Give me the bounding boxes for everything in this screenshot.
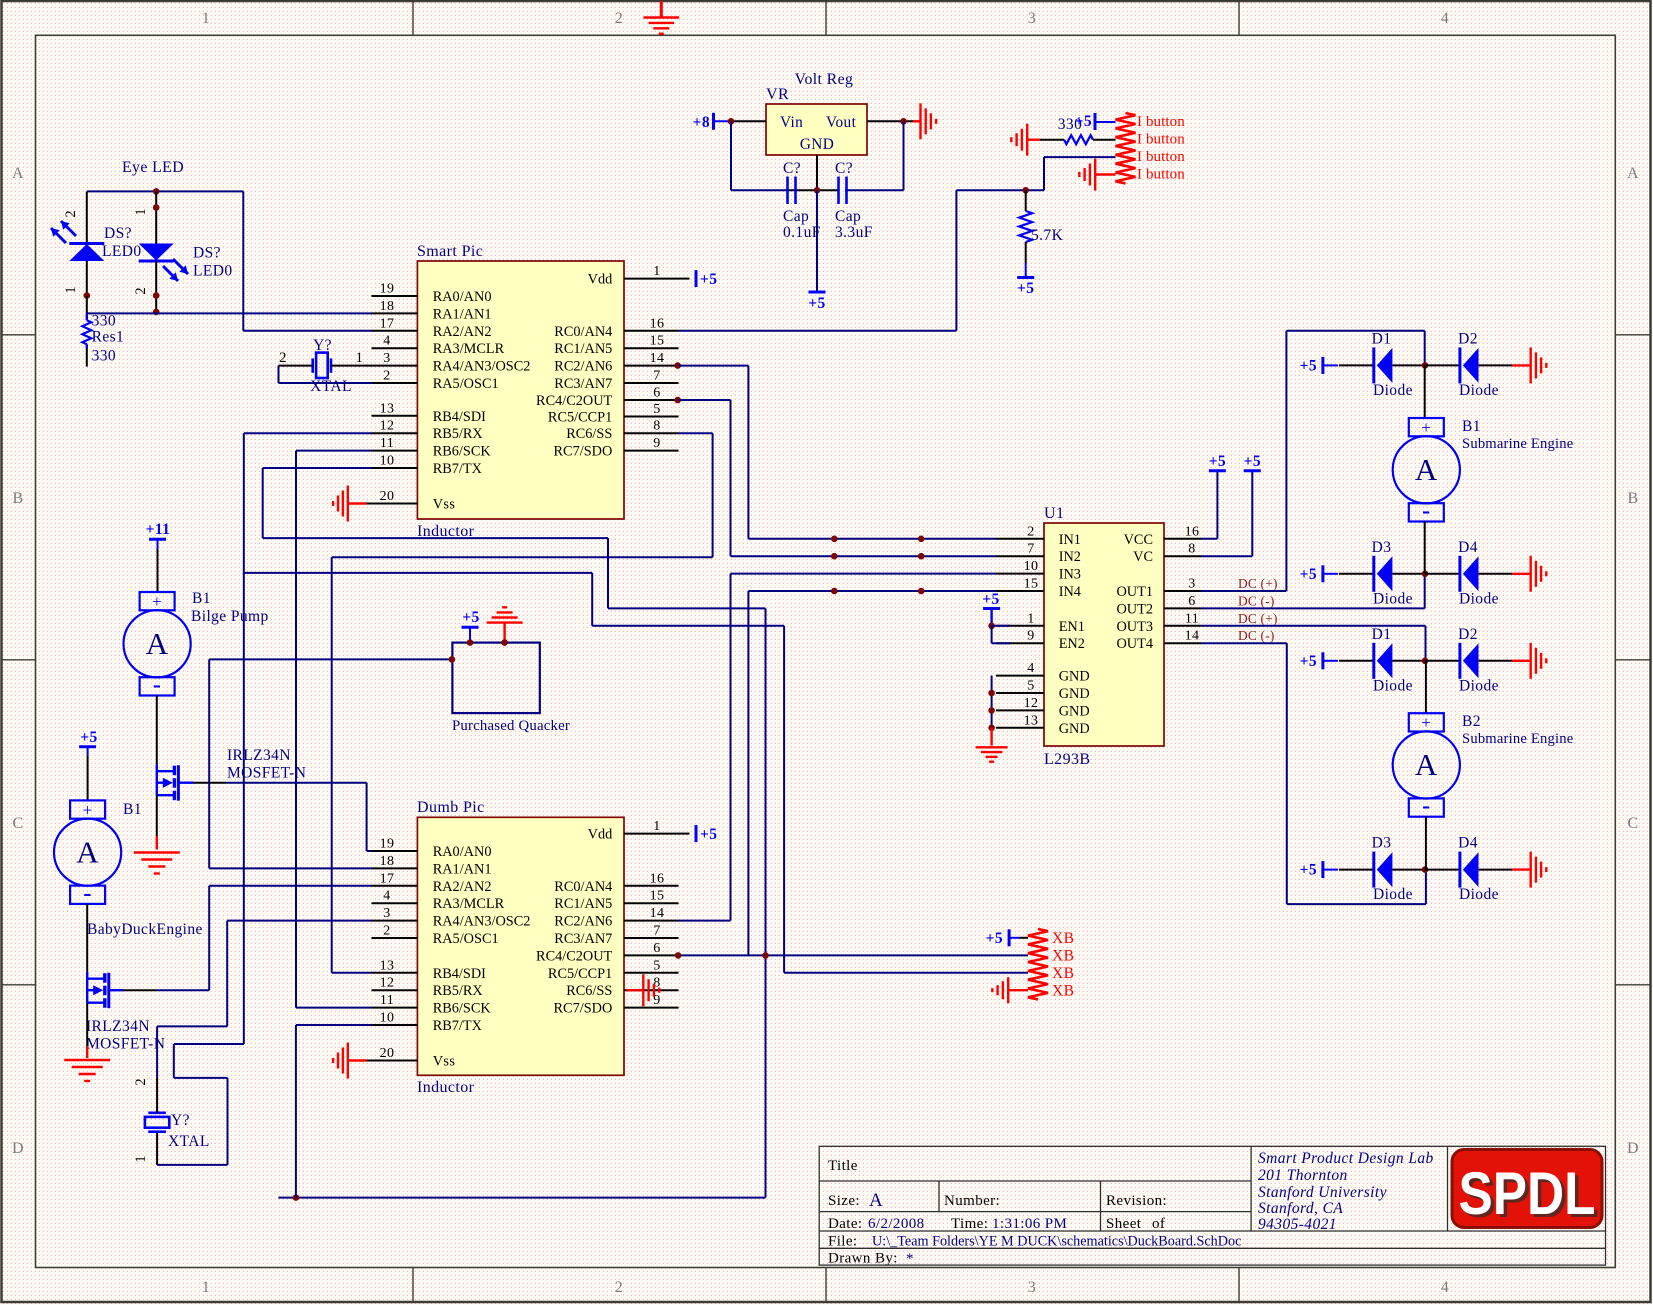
power port +5 (Quacker) bbox=[462, 609, 480, 643]
svg-text:Vout: Vout bbox=[826, 114, 857, 131]
power ground (below button chain) bbox=[1079, 159, 1115, 191]
svg-text:B1: B1 bbox=[1462, 418, 1481, 435]
wire diode D4 to ground bbox=[1479, 573, 1531, 575]
svg-text:4: 4 bbox=[1441, 1279, 1449, 1296]
svg-text:XB: XB bbox=[1052, 948, 1074, 965]
svg-text:of: of bbox=[1152, 1216, 1165, 1232]
wire node to diode D2 bbox=[1425, 660, 1460, 662]
svg-text:6: 6 bbox=[1188, 594, 1195, 609]
svg-text:-: - bbox=[1422, 498, 1430, 524]
svg-text:RA2/AN2: RA2/AN2 bbox=[433, 879, 492, 895]
wire XTAL2 pin1 to RB5 net bbox=[157, 1044, 244, 1165]
node RC4 Smart Pic bbox=[674, 397, 681, 404]
svg-text:A: A bbox=[1415, 747, 1438, 782]
wire RB7 Dumb Pic to bottom rail bbox=[296, 1025, 372, 1198]
svg-text:+: + bbox=[152, 592, 162, 611]
svg-text:D4: D4 bbox=[1458, 539, 1478, 556]
power port +5 (VCC) bbox=[1201, 453, 1226, 539]
wire Quacker to RA1 Dumb Pic bbox=[209, 659, 452, 868]
wire node to diode D4 bbox=[1425, 869, 1460, 871]
svg-text:RA4/AN3/OSC2: RA4/AN3/OSC2 bbox=[433, 359, 531, 375]
node capacitor rail bbox=[814, 187, 821, 194]
svg-text:RC0/AN4: RC0/AN4 bbox=[554, 324, 612, 340]
svg-text:2: 2 bbox=[63, 210, 79, 217]
node RC4/XB2 tap bbox=[762, 952, 769, 959]
svg-text:14: 14 bbox=[650, 351, 665, 366]
svg-text:2: 2 bbox=[383, 369, 390, 384]
svg-text:14: 14 bbox=[650, 906, 665, 921]
node IN2 wire a bbox=[831, 553, 838, 560]
svg-text:RC4/C2OUT: RC4/C2OUT bbox=[536, 948, 613, 964]
wire MOSFET source to ground (upper) bbox=[156, 795, 158, 849]
diode D1 bbox=[1372, 330, 1413, 399]
svg-text:IN2: IN2 bbox=[1059, 549, 1081, 565]
svg-text:19: 19 bbox=[380, 282, 395, 297]
svg-text:7: 7 bbox=[653, 369, 660, 384]
wire GND bus U1 bbox=[991, 676, 993, 728]
svg-text:C?: C? bbox=[835, 160, 853, 177]
wire EN1 stub bbox=[992, 625, 1010, 627]
transistor IRLZ34N MOSFET-N (upper) bbox=[157, 764, 179, 801]
svg-text:RA1/AN1: RA1/AN1 bbox=[433, 861, 492, 877]
label Volt Reg bbox=[795, 71, 854, 88]
svg-text:0.1uF: 0.1uF bbox=[783, 224, 821, 241]
node bottom rail bbox=[293, 1194, 300, 1201]
wire GND rail to +5 port bbox=[816, 190, 818, 292]
svg-text:-: - bbox=[153, 672, 161, 698]
node RC4 Dumb Pic bbox=[675, 952, 682, 959]
wire diode D3 to node bbox=[1393, 573, 1425, 575]
wire diode row1 to motor B1 bbox=[1424, 365, 1426, 418]
svg-text:16: 16 bbox=[650, 871, 665, 886]
label DS? LED0 (left) bbox=[102, 225, 141, 260]
svg-text:RC5/CCP1: RC5/CCP1 bbox=[548, 410, 612, 426]
power ground (upper MOSFET) bbox=[134, 853, 180, 874]
svg-text:IN1: IN1 bbox=[1059, 532, 1081, 548]
svg-text:RA0/AN0: RA0/AN0 bbox=[433, 844, 492, 860]
svg-text:+5: +5 bbox=[1300, 566, 1317, 583]
power port +5 (diode row D1/D2 y=660.8) bbox=[1300, 652, 1338, 670]
svg-text:Revision:: Revision: bbox=[1106, 1193, 1167, 1209]
pins U1 right bbox=[1164, 539, 1201, 643]
svg-text:18: 18 bbox=[380, 854, 395, 869]
svg-text:A: A bbox=[1627, 165, 1639, 182]
wire Vout to ground bbox=[867, 120, 921, 122]
svg-text:15: 15 bbox=[650, 334, 665, 349]
wire EN1 to EN2 bbox=[992, 626, 1010, 643]
diode D3 bbox=[1372, 539, 1413, 608]
svg-text:XTAL: XTAL bbox=[168, 1133, 210, 1150]
svg-text:RB6/SCK: RB6/SCK bbox=[433, 1001, 492, 1017]
sub circuit Purchased Quacker bbox=[452, 643, 539, 714]
svg-text:D1: D1 bbox=[1372, 626, 1392, 643]
svg-text:1: 1 bbox=[653, 264, 660, 279]
svg-text:D1: D1 bbox=[1372, 330, 1392, 347]
node Quacker left bbox=[449, 656, 456, 663]
power ground (diode row y=573.8) bbox=[1531, 556, 1547, 592]
node diode row y=573.8 bbox=[1422, 571, 1429, 578]
svg-text:GND: GND bbox=[1059, 686, 1090, 702]
svg-text:20: 20 bbox=[380, 489, 395, 504]
svg-text:DC (-): DC (-) bbox=[1238, 628, 1275, 643]
resistor chain I button x4 bbox=[1116, 113, 1186, 184]
svg-text:13: 13 bbox=[380, 958, 395, 973]
wire VR GND pin down bbox=[816, 155, 818, 190]
crystal Y? XTAL bbox=[310, 337, 352, 395]
svg-text:Stanford University: Stanford University bbox=[1258, 1184, 1387, 1201]
node Quacker +5 bbox=[467, 639, 474, 646]
node GND12 bbox=[988, 707, 995, 714]
svg-text:Bilge Pump: Bilge Pump bbox=[191, 608, 269, 625]
svg-text:1: 1 bbox=[1027, 611, 1034, 626]
power port +5 (diode row D3/D4 y=869.6) bbox=[1300, 861, 1338, 879]
svg-text:14: 14 bbox=[1185, 629, 1200, 644]
wire XTAL2 pin2 to RA4 Dumb Pic bbox=[157, 921, 371, 1113]
svg-text:A: A bbox=[12, 165, 24, 182]
power ground (diode row y=869.6) bbox=[1531, 852, 1547, 888]
svg-text:+5: +5 bbox=[1017, 280, 1034, 297]
power port +8 bbox=[693, 113, 731, 131]
svg-text:Size:: Size: bbox=[828, 1193, 860, 1209]
svg-text:+: + bbox=[1421, 713, 1431, 732]
diode D3 bbox=[1372, 835, 1413, 904]
svg-text:7: 7 bbox=[1027, 542, 1034, 557]
label DC (-) OUT2 bbox=[1238, 593, 1275, 608]
svg-text:Res1: Res1 bbox=[92, 329, 125, 346]
svg-text:Vss: Vss bbox=[433, 497, 456, 513]
svg-text:12: 12 bbox=[380, 419, 395, 434]
diode D4 bbox=[1458, 539, 1499, 608]
svg-text:94305-4021: 94305-4021 bbox=[1258, 1216, 1337, 1233]
svg-text:XB: XB bbox=[1052, 965, 1074, 982]
svg-text:D2: D2 bbox=[1458, 626, 1478, 643]
svg-text:Cap: Cap bbox=[835, 208, 861, 225]
svg-text:C: C bbox=[1627, 815, 1638, 832]
svg-text:+5: +5 bbox=[1244, 453, 1261, 470]
svg-text:Y?: Y? bbox=[171, 1112, 190, 1129]
resistor chain XB x4 bbox=[1028, 929, 1074, 1000]
svg-text:RC5/CCP1: RC5/CCP1 bbox=[548, 966, 612, 982]
power ground (diode row y=660.8) bbox=[1531, 643, 1547, 679]
svg-text:D2: D2 bbox=[1458, 330, 1478, 347]
voltage regulator VR bbox=[766, 86, 867, 155]
svg-text:-: - bbox=[83, 880, 91, 906]
power port +5 (XB chain) bbox=[986, 929, 1028, 947]
pins Dumb Pic left bbox=[367, 851, 418, 1061]
svg-text:DC (+): DC (+) bbox=[1238, 576, 1278, 591]
node at Vout bbox=[900, 118, 907, 125]
svg-text:9: 9 bbox=[653, 436, 660, 451]
node GND13 bbox=[988, 725, 995, 732]
wire MOSFET source to ground (lower) bbox=[86, 1003, 88, 1058]
svg-text:RB4/SDI: RB4/SDI bbox=[433, 966, 486, 982]
svg-text:20: 20 bbox=[380, 1046, 395, 1061]
address Smart Product Design Lab bbox=[1258, 1150, 1434, 1233]
diode D2 bbox=[1458, 330, 1499, 399]
wire +5 to diode D1 bbox=[1339, 364, 1374, 366]
LED DS? LED0 (middle) bbox=[139, 244, 188, 282]
label Inductor (Smart Pic) bbox=[417, 523, 475, 540]
svg-text:5: 5 bbox=[1027, 679, 1034, 694]
svg-text:+5: +5 bbox=[1300, 653, 1317, 670]
svg-text:D: D bbox=[1627, 1140, 1639, 1157]
svg-text:Submarine Engine: Submarine Engine bbox=[1462, 436, 1573, 452]
label DC (-) OUT4 bbox=[1238, 628, 1275, 643]
svg-text:11: 11 bbox=[380, 436, 394, 451]
svg-text:Time:: Time: bbox=[951, 1216, 988, 1232]
ground (top center, on border) bbox=[643, 1, 679, 34]
svg-text:VCC: VCC bbox=[1124, 532, 1153, 548]
svg-text:IN3: IN3 bbox=[1059, 567, 1081, 583]
svg-text:1: 1 bbox=[63, 286, 79, 293]
svg-text:OUT3: OUT3 bbox=[1116, 619, 1153, 635]
svg-text:Inductor: Inductor bbox=[417, 1079, 475, 1096]
svg-text:Purchased Quacker: Purchased Quacker bbox=[452, 718, 570, 734]
svg-text:1:31:06 PM: 1:31:06 PM bbox=[992, 1216, 1067, 1232]
wire RC4 Smart Pic to IN2 bbox=[679, 400, 997, 556]
svg-text:RA3/MCLR: RA3/MCLR bbox=[433, 896, 505, 912]
wire RB6 Smart Pic to RB6 Dumb Pic bbox=[296, 451, 372, 1008]
IC Smart Pic bbox=[380, 243, 665, 519]
wire diode D2 to ground bbox=[1479, 364, 1531, 366]
svg-text:A: A bbox=[1415, 452, 1438, 487]
svg-text:OUT2: OUT2 bbox=[1116, 601, 1153, 617]
wire RB5 Smart Pic to XB3 bbox=[244, 433, 1028, 1044]
wire node to diode D2 bbox=[1425, 364, 1460, 366]
wire button chain to RC0 net bbox=[956, 157, 1115, 331]
svg-text:+5: +5 bbox=[986, 930, 1003, 947]
pins Smart Pic right bbox=[624, 279, 679, 451]
svg-text:DC (+): DC (+) bbox=[1238, 611, 1278, 626]
svg-text:RA3/MCLR: RA3/MCLR bbox=[433, 341, 505, 357]
svg-text:RC3/AN7: RC3/AN7 bbox=[554, 931, 612, 947]
svg-text:16: 16 bbox=[1185, 524, 1200, 539]
wire RC6 Smart Pic to RB4 Dumb Pic bbox=[332, 433, 713, 973]
svg-text:D3: D3 bbox=[1372, 835, 1392, 852]
svg-text:Drawn By:: Drawn By: bbox=[828, 1251, 898, 1267]
node RC2 Smart Pic bbox=[674, 362, 681, 369]
svg-text:2: 2 bbox=[133, 1078, 149, 1085]
svg-text:Smart Product Design Lab: Smart Product Design Lab bbox=[1258, 1150, 1434, 1167]
svg-text:RC7/SDO: RC7/SDO bbox=[554, 444, 613, 460]
svg-text:A: A bbox=[146, 626, 169, 661]
power ground (XB chain) bbox=[992, 977, 1028, 1003]
wire RC2 Smart Pic to IN1 bbox=[679, 366, 997, 539]
power port +5 (Smart Pic Vdd) bbox=[679, 270, 718, 288]
svg-text:XB: XB bbox=[1052, 983, 1074, 1000]
logo SPDL bbox=[1452, 1150, 1602, 1231]
svg-text:4: 4 bbox=[383, 334, 390, 349]
wire diode D1 to node bbox=[1393, 364, 1425, 366]
power ground (diode row y=365.4) bbox=[1531, 347, 1547, 383]
wire OUT4 to diode bridge 2 bbox=[1201, 643, 1426, 904]
svg-text:8: 8 bbox=[1188, 542, 1195, 557]
svg-text:IRLZ34N: IRLZ34N bbox=[86, 1018, 150, 1035]
wire LED1 anode bbox=[86, 191, 88, 243]
node IN1 wire a bbox=[831, 536, 838, 543]
svg-text:11: 11 bbox=[380, 993, 394, 1008]
svg-text:3: 3 bbox=[383, 351, 390, 366]
svg-text:EN2: EN2 bbox=[1059, 636, 1085, 652]
svg-text:Vss: Vss bbox=[433, 1054, 456, 1070]
pins U1 left bbox=[996, 539, 1044, 728]
svg-text:5.7K: 5.7K bbox=[1031, 227, 1064, 244]
power ground (Vss Dumb Pic) bbox=[333, 1043, 366, 1079]
svg-text:15: 15 bbox=[650, 889, 665, 904]
svg-text:IN4: IN4 bbox=[1059, 584, 1081, 600]
svg-text:I button: I button bbox=[1137, 114, 1185, 130]
pins Dumb Pic right bbox=[624, 834, 679, 1008]
svg-text:2: 2 bbox=[279, 350, 287, 366]
svg-text:RB5/RX: RB5/RX bbox=[433, 426, 484, 442]
node LED2 cathode bbox=[153, 292, 160, 299]
svg-text:2: 2 bbox=[383, 924, 390, 939]
svg-text:+11: +11 bbox=[146, 521, 171, 538]
svg-text:RA5/OSC1: RA5/OSC1 bbox=[433, 931, 499, 947]
svg-text:1: 1 bbox=[133, 1155, 149, 1162]
svg-text:16: 16 bbox=[650, 316, 665, 331]
svg-text:File:: File: bbox=[828, 1234, 858, 1250]
label Eye LED bbox=[122, 159, 184, 176]
wire XTAL1 pin1 to RA4 bbox=[331, 365, 372, 367]
svg-text:A: A bbox=[869, 1190, 883, 1211]
svg-text:RB5/RX: RB5/RX bbox=[433, 983, 484, 999]
svg-text:2: 2 bbox=[133, 287, 149, 294]
svg-text:MOSFET-N: MOSFET-N bbox=[86, 1036, 165, 1053]
svg-text:RC7/SDO: RC7/SDO bbox=[554, 1001, 613, 1017]
svg-text:Title: Title bbox=[828, 1158, 858, 1174]
svg-text:XB: XB bbox=[1052, 930, 1074, 947]
svg-text:OUT1: OUT1 bbox=[1116, 584, 1153, 600]
wire XTAL1 pin2 loop to RA5 bbox=[279, 366, 373, 383]
wire motor B2 to diode row4 bbox=[1425, 817, 1427, 870]
svg-text:5: 5 bbox=[653, 402, 660, 417]
wire capacitor rail bbox=[731, 189, 904, 191]
svg-text:Date:: Date: bbox=[828, 1216, 862, 1232]
svg-text:1: 1 bbox=[202, 10, 210, 27]
power port +11 bbox=[146, 521, 171, 549]
svg-text:Diode: Diode bbox=[1459, 382, 1499, 399]
wire +5 to diode D3 bbox=[1339, 869, 1374, 871]
svg-text:Vdd: Vdd bbox=[588, 827, 613, 843]
svg-text:4: 4 bbox=[383, 889, 390, 904]
svg-text:2: 2 bbox=[615, 10, 623, 27]
wire +8 to Vin bbox=[731, 120, 766, 122]
capacitor C? 3.3uF bbox=[835, 160, 873, 241]
label B2 Submarine Engine bbox=[1462, 713, 1573, 747]
svg-text:+5: +5 bbox=[1300, 862, 1317, 879]
svg-text:U:\_Team Folders\YE M DUCK\sch: U:\_Team Folders\YE M DUCK\schematics\Du… bbox=[872, 1234, 1241, 1250]
svg-text:I button: I button bbox=[1137, 132, 1185, 148]
node IN2 wire b bbox=[918, 553, 925, 560]
svg-text:RB6/SCK: RB6/SCK bbox=[433, 444, 492, 460]
svg-text:Diode: Diode bbox=[1373, 382, 1413, 399]
svg-text:RC4/C2OUT: RC4/C2OUT bbox=[536, 393, 613, 409]
svg-text:XTAL: XTAL bbox=[310, 378, 352, 395]
svg-text:1: 1 bbox=[653, 819, 660, 834]
svg-text:2: 2 bbox=[1027, 524, 1034, 539]
svg-text:17: 17 bbox=[380, 871, 395, 886]
svg-text:+: + bbox=[83, 800, 93, 819]
svg-text:4: 4 bbox=[1441, 10, 1449, 27]
node IN4 wire a bbox=[831, 588, 838, 595]
svg-text:10: 10 bbox=[380, 454, 395, 469]
svg-text:B1: B1 bbox=[123, 801, 142, 818]
capacitor C? 0.1uF bbox=[783, 160, 821, 241]
svg-text:Number:: Number: bbox=[944, 1193, 1000, 1209]
svg-text:C: C bbox=[12, 815, 23, 832]
svg-text:17: 17 bbox=[380, 316, 395, 331]
wire bottom rail bbox=[278, 1197, 765, 1199]
diode D2 bbox=[1458, 626, 1499, 695]
wire RC0 Smart Pic to button net bbox=[679, 330, 957, 332]
power port +5 (below 5.7K) bbox=[1017, 263, 1034, 297]
svg-text:9: 9 bbox=[1027, 629, 1034, 644]
svg-text:DS?: DS? bbox=[193, 245, 221, 262]
IC U1 L293B bbox=[1024, 505, 1200, 768]
wire Vout branch down bbox=[903, 121, 905, 190]
wire RC4 Dumb Pic to XB2 bbox=[678, 954, 1028, 956]
svg-text:U1: U1 bbox=[1044, 505, 1064, 522]
svg-text:2: 2 bbox=[615, 1279, 623, 1296]
svg-text:1: 1 bbox=[356, 350, 364, 366]
wire IN4 to RC4 crossing bbox=[748, 591, 996, 955]
label Purchased Quacker bbox=[452, 718, 570, 734]
title block values bbox=[868, 1190, 1241, 1267]
svg-text:*: * bbox=[906, 1251, 914, 1267]
wire diode D4 to ground bbox=[1479, 869, 1531, 871]
svg-text:I button: I button bbox=[1137, 149, 1185, 165]
label DC (+) OUT3 bbox=[1238, 611, 1278, 626]
power ground (Quacker, inverted) bbox=[487, 607, 523, 642]
svg-text:3: 3 bbox=[1028, 10, 1036, 27]
wire diode D1 to node bbox=[1393, 660, 1425, 662]
label DC (+) OUT1 bbox=[1238, 576, 1278, 591]
svg-text:RB7/TX: RB7/TX bbox=[433, 461, 483, 477]
svg-text:OUT4: OUT4 bbox=[1116, 636, 1153, 652]
motor B1 BabyDuckEngine bbox=[54, 800, 121, 906]
wire diode D2 to ground bbox=[1479, 660, 1531, 662]
wire LED1 cathode bbox=[86, 261, 88, 296]
svg-text:13: 13 bbox=[380, 401, 395, 416]
svg-text:RC2/AN6: RC2/AN6 bbox=[554, 914, 612, 930]
svg-text:LED0: LED0 bbox=[102, 243, 141, 260]
label Inductor (Dumb Pic) bbox=[417, 1079, 475, 1096]
node Quacker ground bbox=[501, 639, 508, 646]
power port +5 (diode row D1/D2 y=365.4) bbox=[1300, 357, 1338, 375]
wire 330 to button chain bbox=[1093, 139, 1116, 141]
svg-text:GND: GND bbox=[1059, 721, 1090, 737]
svg-text:18: 18 bbox=[380, 299, 395, 314]
wire OUT1 to diode bridge 1 bbox=[1201, 331, 1425, 591]
power port +5 (BabyDuckEngine) bbox=[79, 729, 98, 756]
svg-text:LED0: LED0 bbox=[193, 263, 232, 280]
svg-text:VR: VR bbox=[766, 86, 789, 103]
svg-text:Sheet: Sheet bbox=[1106, 1216, 1142, 1232]
svg-text:13: 13 bbox=[1024, 713, 1039, 728]
svg-text:B2: B2 bbox=[1462, 713, 1481, 730]
svg-text:12: 12 bbox=[1024, 696, 1039, 711]
power ground (Dumb Pic RC6) bbox=[626, 974, 659, 1006]
svg-text:RC6/SS: RC6/SS bbox=[566, 426, 612, 442]
svg-text:3: 3 bbox=[383, 906, 390, 921]
svg-text:GND: GND bbox=[1059, 703, 1090, 719]
power ground (lower MOSFET) bbox=[64, 1060, 110, 1081]
label IRLZ34N MOSFET-N (lower) bbox=[86, 1018, 165, 1053]
wire +11 to Bilge Pump bbox=[157, 549, 159, 592]
svg-text:+5: +5 bbox=[1300, 357, 1317, 374]
node LED top rail bbox=[153, 188, 160, 195]
